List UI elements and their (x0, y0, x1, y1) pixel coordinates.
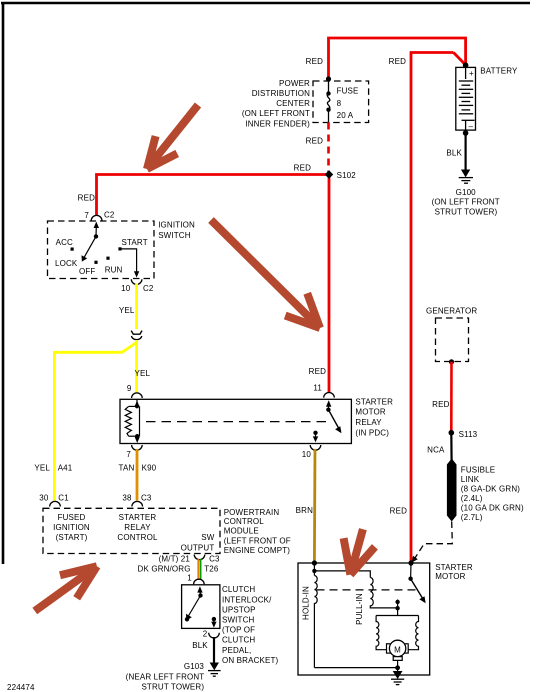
svg-text:(START): (START) (56, 533, 88, 542)
svg-text:SWITCH: SWITCH (222, 616, 255, 625)
svg-text:C1: C1 (58, 494, 69, 503)
svg-text:NCA: NCA (427, 445, 445, 454)
relay coil (125, 399, 139, 438)
wire RED generator to S113 (450, 362, 453, 431)
annotation arrow 3 (35, 566, 97, 611)
node splice S113 (449, 430, 455, 436)
svg-text:–: – (469, 122, 474, 131)
node OFF (94, 261, 97, 264)
wire RED main feed vertical to starter motor (411, 53, 454, 564)
connector pin 10 C2 (131, 279, 142, 284)
relay K1 starter motor relay box (120, 399, 351, 443)
svg-text:C2: C2 (143, 284, 154, 293)
svg-text:(10 GA DK GRN): (10 GA DK GRN) (461, 504, 524, 513)
wire RED S102 to relay pin 11 (328, 175, 331, 394)
svg-text:CLUTCH: CLUTCH (222, 636, 255, 645)
fusible link F2 (447, 459, 457, 522)
node battery positive junction (463, 62, 469, 68)
svg-text:HOLD-IN: HOLD-IN (301, 586, 310, 620)
svg-text:K90: K90 (142, 463, 157, 472)
inductor pull-in coil (370, 578, 397, 608)
svg-text:RED: RED (309, 367, 326, 376)
connector SW output C3 (194, 555, 205, 560)
annotation arrow 4 (344, 529, 375, 574)
svg-text:BRN: BRN (296, 506, 313, 515)
svg-text:G100: G100 (456, 188, 477, 197)
clutch switch contacts (188, 590, 214, 623)
node splice S102 (325, 170, 333, 178)
svg-text:GENERATOR: GENERATOR (426, 306, 477, 315)
wire motor to ground (397, 660, 399, 671)
svg-text:IGNITION: IGNITION (53, 523, 90, 532)
svg-text:(IN PDC): (IN PDC) (355, 429, 389, 438)
connector pin 7 (relay) (132, 445, 143, 450)
svg-text:T26: T26 (204, 565, 219, 574)
inductor hold-in coil (314, 571, 317, 668)
wire BRN relay pin10 to starter motor (313, 449, 316, 562)
svg-text:M: M (394, 645, 401, 654)
svg-text:(2.7L): (2.7L) (461, 513, 483, 522)
wire YEL branch to PCM (54, 343, 136, 502)
svg-text:ON BRACKET): ON BRACKET) (222, 656, 279, 665)
label FUSED IGNITION (START) (53, 513, 90, 542)
battery B+ (456, 67, 476, 130)
relay pin 10 contact (313, 431, 317, 435)
svg-text:POWER: POWER (279, 79, 310, 88)
svg-text:(ON LEFT FRONT: (ON LEFT FRONT (242, 109, 310, 118)
wire hold-in return (314, 667, 397, 669)
wire NCA S113 to fusible link (450, 433, 453, 461)
node START (118, 247, 121, 250)
wire BLK battery to ground (465, 133, 467, 170)
svg-text:ENGINE COMPT): ENGINE COMPT) (224, 546, 291, 555)
svg-text:38: 38 (122, 494, 132, 503)
svg-text:G103: G103 (184, 662, 205, 671)
svg-text:+: + (469, 69, 474, 78)
wire RED from fuse top to battery (329, 38, 466, 80)
svg-text:RED: RED (78, 194, 95, 203)
svg-text:YEL: YEL (135, 369, 151, 378)
svg-text:CLUTCH: CLUTCH (222, 585, 255, 594)
svg-text:YEL: YEL (34, 463, 50, 472)
starter motor box (298, 563, 430, 675)
svg-text:30: 30 (39, 494, 49, 503)
fuse F8 20A (327, 81, 330, 123)
wire RED S102 to ignition switch (97, 175, 330, 217)
node battery negative junction (463, 130, 469, 136)
wire START to pin 10 (122, 249, 137, 273)
svg-text:A41: A41 (58, 463, 73, 472)
svg-text:7: 7 (84, 211, 89, 220)
svg-text:MOTOR: MOTOR (435, 572, 465, 581)
svg-text:C3: C3 (209, 555, 220, 564)
svg-text:RED: RED (306, 137, 323, 146)
clutch interlock/upstop switch S2 (182, 585, 220, 629)
connector pin 7 C2 (ignition switch) (91, 215, 102, 220)
node starter feed junction (408, 560, 413, 565)
svg-text:BLK: BLK (446, 149, 462, 158)
svg-text:S113: S113 (459, 430, 478, 439)
svg-text:POWERTRAIN: POWERTRAIN (224, 508, 280, 517)
svg-text:(M/T) 21: (M/T) 21 (159, 555, 191, 564)
svg-text:9: 9 (127, 384, 132, 393)
svg-text:DISTRIBUTION: DISTRIBUTION (252, 89, 310, 98)
svg-text:FUSED: FUSED (58, 513, 86, 522)
motor M1 (389, 640, 405, 656)
svg-text:2: 2 (203, 630, 208, 639)
wire (454, 53, 467, 66)
svg-text:10: 10 (121, 284, 131, 293)
relay switch armature (327, 403, 329, 410)
svg-text:8: 8 (337, 99, 342, 108)
svg-text:C3: C3 (141, 494, 152, 503)
wire BLK clutch switch to ground (213, 637, 215, 663)
wire TAN relay pin7 to PCM pin38 (136, 449, 139, 501)
node fuse top junction (326, 76, 331, 81)
svg-text:RED: RED (294, 164, 311, 173)
svg-text:(ON LEFT FRONT: (ON LEFT FRONT (432, 198, 500, 207)
svg-text:ACC: ACC (56, 238, 73, 247)
ground (starter motor) (391, 672, 404, 685)
svg-text:11: 11 (313, 384, 322, 393)
svg-text:(8 GA-DK GRN): (8 GA-DK GRN) (461, 485, 520, 494)
svg-text:RED: RED (306, 57, 323, 66)
ground G100 (459, 170, 473, 183)
svg-text:SW: SW (201, 533, 214, 542)
svg-text:CONTROL: CONTROL (117, 533, 158, 542)
svg-text:MODULE: MODULE (224, 527, 259, 536)
svg-text:DK GRN/ORG: DK GRN/ORG (138, 565, 191, 574)
svg-text:INTERLOCK/: INTERLOCK/ (222, 595, 272, 604)
svg-text:LOCK: LOCK (55, 259, 78, 268)
svg-text:STARTER: STARTER (355, 398, 393, 407)
connector pin 30 C1 (50, 501, 61, 506)
svg-text:BATTERY: BATTERY (480, 67, 518, 76)
connector pin 9 (132, 393, 143, 398)
node BRN entry (312, 560, 317, 565)
svg-text:(LEFT FRONT OF: (LEFT FRONT OF (224, 536, 291, 545)
svg-text:FUSIBLE: FUSIBLE (461, 465, 495, 474)
motor commutator (393, 657, 402, 661)
svg-text:FUSE: FUSE (337, 87, 359, 96)
svg-text:OFF: OFF (79, 267, 95, 276)
wire DK GRN/ORG (197, 559, 199, 580)
svg-text:INNER FENDER): INNER FENDER) (245, 119, 310, 128)
node generator output (449, 359, 454, 364)
svg-text:PULL-IN: PULL-IN (355, 593, 364, 625)
svg-text:(2.4L): (2.4L) (461, 494, 483, 503)
annotation arrow 1 (147, 105, 198, 169)
svg-text:START: START (122, 238, 148, 247)
svg-text:RELAY: RELAY (355, 418, 382, 427)
relay internal dashed link (146, 421, 330, 423)
wire dashed fusible link to starter motor (414, 522, 452, 560)
svg-text:1: 1 (187, 574, 192, 583)
connector pin 38 C3 (132, 501, 143, 506)
connector pin 11 (324, 393, 335, 398)
svg-text:7: 7 (126, 450, 131, 459)
svg-text:RED: RED (432, 400, 449, 409)
svg-text:RED: RED (390, 506, 407, 515)
svg-text:RED: RED (389, 57, 406, 66)
ground G103 (208, 663, 221, 676)
label POWER DISTRIBUTION CENTER (242, 79, 310, 128)
generator box (436, 318, 469, 362)
wire YEL connector to relay pin 9 (135, 340, 138, 393)
svg-text:YEL: YEL (119, 306, 135, 315)
connector inline C (yellow wire) (131, 331, 142, 340)
svg-text:RUN: RUN (105, 265, 123, 274)
svg-text:SWITCH: SWITCH (158, 231, 191, 240)
svg-text:10: 10 (302, 450, 312, 459)
svg-text:TAN: TAN (119, 463, 135, 472)
ignition switch S1 (48, 221, 155, 279)
arrowhead to pin 7 (94, 222, 99, 229)
PCM powertrain control module box (43, 508, 220, 553)
connector pin 10 (relay) (310, 445, 321, 450)
svg-text:RELAY: RELAY (124, 523, 151, 532)
svg-text:STARTER: STARTER (119, 513, 157, 522)
svg-text:20 A: 20 A (337, 111, 354, 120)
svg-text:224474: 224474 (7, 683, 35, 692)
svg-text:OUTPUT: OUTPUT (181, 544, 215, 553)
svg-text:STRUT TOWER): STRUT TOWER) (141, 683, 204, 692)
wire to pull-in coil (314, 563, 370, 578)
annotation arrow 2 (211, 220, 320, 328)
wire YEL pin10 down (135, 284, 138, 330)
node motor ground junction (395, 665, 400, 670)
svg-text:(NEAR LEFT FRONT: (NEAR LEFT FRONT (126, 673, 205, 682)
label STARTER RELAY CONTROL (117, 513, 158, 542)
svg-text:BLK: BLK (192, 641, 208, 650)
connector pin 2 (clutch switch) (209, 633, 220, 638)
svg-text:LINK: LINK (461, 475, 480, 484)
power distribution center box (313, 81, 369, 123)
connector pin 1 (clutch switch) (194, 579, 205, 584)
svg-text:PEDAL,: PEDAL, (222, 646, 251, 655)
starter solenoid switch (410, 563, 412, 579)
svg-text:UPSTOP: UPSTOP (222, 605, 256, 614)
svg-text:IGNITION: IGNITION (158, 220, 195, 229)
svg-text:C2: C2 (104, 211, 115, 220)
motor M1 field frame (376, 616, 418, 650)
arrowhead lever at LOCK (82, 255, 88, 261)
svg-text:MOTOR: MOTOR (355, 408, 385, 417)
node ACC (71, 248, 74, 251)
wire RED dashed fuse to S102 (327, 123, 330, 173)
solenoid contact column (397, 600, 399, 616)
svg-text:S102: S102 (337, 171, 357, 180)
svg-text:STRUT TOWER): STRUT TOWER) (435, 207, 498, 216)
svg-text:CONTROL: CONTROL (224, 517, 265, 526)
dashed solenoid link (317, 589, 417, 591)
motor brushes (387, 644, 391, 653)
node RUN (106, 257, 109, 260)
svg-text:CENTER: CENTER (276, 99, 310, 108)
svg-text:(TOP OF: (TOP OF (222, 626, 255, 635)
